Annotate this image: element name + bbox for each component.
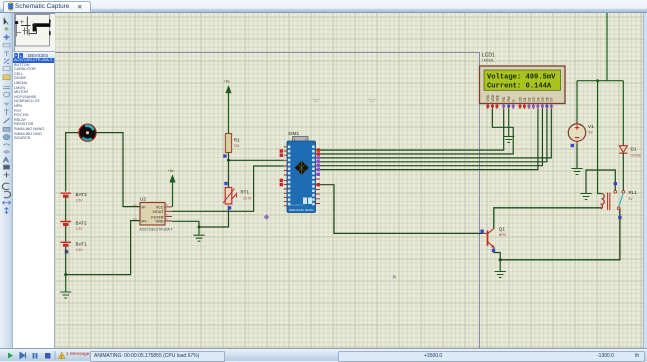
svg-text:Voltage: 499.5mV: Voltage: 499.5mV (487, 74, 556, 82)
wire BAT1 to ground junction (65, 247, 67, 275)
IC U2 ACS712 (140, 203, 172, 226)
wire Q1 collector to relay coil (494, 208, 602, 229)
wire SIM1 to LCD D4 (320, 109, 538, 170)
svg-text:D0: D0 (518, 97, 522, 101)
junction emitter node (499, 258, 502, 261)
diode D1 (619, 146, 642, 158)
pin state square BAT1 (65, 250, 68, 253)
svg-text:5V: 5V (589, 131, 594, 135)
svg-text:IP+: IP+ (142, 220, 148, 224)
pin state squares SIM1 right (317, 148, 320, 186)
junction top net (596, 79, 599, 82)
svg-text:NPN: NPN (499, 233, 507, 237)
svg-text:D3: D3 (532, 97, 536, 101)
window tab bar (0, 0, 647, 13)
junction battery bottom (64, 273, 67, 276)
power +5V (U2 VCC) (168, 169, 176, 207)
LCD pin names (486, 94, 554, 101)
relay RL1 (602, 190, 638, 210)
violet origin marker (264, 214, 270, 220)
battery BAT1 (60, 241, 87, 252)
svg-text:BAT1: BAT1 (76, 241, 88, 246)
wire U2 VIOUT to SIM1 A1 (172, 166, 284, 211)
svg-text:FILTER: FILTER (151, 215, 164, 219)
svg-text:LM016L: LM016L (482, 59, 494, 63)
wire SIM1 to LCD E and VDD (320, 109, 513, 154)
ground (battery) (60, 275, 71, 298)
wire V1 to ground (576, 144, 578, 168)
source V1 (568, 122, 594, 144)
LCD pin stubs (488, 104, 552, 110)
ground (relay common) (580, 194, 591, 200)
svg-text:GND: GND (156, 220, 164, 224)
ground (Q1 emitter) (495, 260, 506, 278)
svg-text:BAT2: BAT2 (76, 221, 88, 226)
wire SIM1 D2 to Q1 base (320, 185, 484, 234)
svg-text:RS: RS (502, 97, 506, 101)
svg-text:1.5V: 1.5V (76, 248, 84, 252)
ground (LCD RW) (503, 109, 514, 143)
wire top distribution net (577, 80, 623, 82)
faint annotation marks (312, 99, 320, 101)
pin state square R1 bottom (223, 154, 226, 157)
left mode toolbar (0, 13, 13, 348)
wire Q1 emitter to node (494, 247, 500, 259)
svg-text:RL1: RL1 (629, 190, 638, 195)
battery BAT3 (60, 192, 87, 203)
status bar (0, 348, 647, 361)
svg-text:ACS712ELCTR-20A-T: ACS712ELCTR-20A-T (140, 228, 173, 232)
ground (V1) (571, 169, 582, 175)
wire U2 GND net to RT1 (172, 206, 229, 227)
wire node A to RT1 (228, 160, 230, 187)
svg-text:www.arduino.cc: www.arduino.cc (290, 204, 306, 207)
pin state square V1 minus (571, 144, 574, 147)
wire BAT2 to BAT1 (65, 226, 67, 242)
pin state square Q1 emitter (492, 249, 495, 252)
wire SIM1 to LCD RS (320, 109, 504, 150)
pin state square relay common (614, 182, 617, 185)
svg-text:V1: V1 (588, 124, 594, 129)
svg-text:Q1: Q1 (499, 227, 506, 232)
wire emitter node to relay contact (500, 209, 620, 260)
svg-text:1,2: 1,2 (133, 203, 137, 207)
sheet border (55, 53, 480, 349)
pin state square RT1 bottom (228, 206, 231, 209)
arduino pin pads right (312, 146, 315, 206)
resistor R1 (225, 134, 240, 153)
battery BAT2 (60, 221, 87, 232)
wire SIM1 to LCD D7 (320, 109, 551, 158)
svg-text:1.5V: 1.5V (76, 227, 84, 231)
wire D1 to relay NO (622, 154, 624, 191)
svg-text:D4: D4 (536, 97, 540, 101)
vertical scrollbar (643, 13, 647, 348)
pin state squares SIM1 left (280, 149, 283, 186)
arduino pin stubs left (284, 147, 287, 206)
svg-text:VEE: VEE (495, 95, 499, 101)
arduino pin stubs right (316, 150, 321, 203)
power +5V (R1) (224, 80, 232, 134)
svg-text:DIODE: DIODE (631, 154, 642, 158)
wire BAT3 to BAT2 (65, 198, 67, 222)
wire relay coil branch (598, 81, 602, 194)
svg-text:+5v: +5v (224, 80, 230, 84)
wire SIM1 to LCD D5 (320, 109, 542, 166)
svg-text:RW: RW (507, 96, 511, 101)
wire D1 branch (622, 81, 624, 146)
pin state square relay contact bottom (618, 216, 621, 219)
svg-text:10.7k: 10.7k (243, 197, 252, 201)
wire battery to U2 IP+ (66, 221, 140, 275)
svg-text:10k: 10k (234, 144, 240, 148)
wire sensor right to U2 IP- (96, 133, 141, 207)
object selector panel (13, 13, 55, 348)
pin state square Q1 base (480, 230, 483, 233)
svg-text:D1: D1 (523, 97, 527, 101)
svg-text:VCC: VCC (156, 206, 164, 210)
svg-text:R1: R1 (234, 138, 240, 143)
wire V1 branch (576, 81, 578, 124)
svg-text:D7: D7 (550, 97, 554, 101)
arduino pin pads left (288, 146, 291, 206)
wire relay common to ground (586, 170, 615, 193)
junction GND net (198, 226, 201, 229)
current sensor (ACS712 loop) (79, 124, 96, 141)
svg-text:RT1: RT1 (241, 190, 250, 195)
wire R1 bottom to node A (228, 153, 230, 161)
no-connect marker (393, 275, 396, 278)
svg-text:SIMULINO NANO: SIMULINO NANO (289, 208, 314, 212)
thermistor RT1 (223, 188, 252, 205)
svg-text:D2: D2 (527, 97, 531, 101)
svg-text:D1: D1 (631, 147, 637, 152)
arduino SIM1 (287, 131, 316, 213)
transistor Q1 (484, 227, 507, 248)
svg-text:IP-: IP- (142, 206, 147, 210)
svg-text:D5: D5 (541, 97, 545, 101)
svg-text:BAT3: BAT3 (76, 192, 88, 197)
pin state square RT1 top (224, 182, 227, 185)
wire supply riser to top net (606, 13, 608, 81)
LCD display LCD1 (480, 66, 566, 104)
svg-text:D6: D6 (545, 97, 549, 101)
svg-text:Current: 0.144A: Current: 0.144A (487, 83, 552, 91)
junction node A (227, 159, 230, 162)
svg-text:3,4: 3,4 (133, 217, 137, 221)
svg-text:U2: U2 (140, 197, 146, 202)
svg-text:5V: 5V (629, 197, 634, 201)
svg-text:1.5V: 1.5V (76, 199, 84, 203)
LCD pin state squares (486, 105, 552, 108)
svg-text:E: E (512, 99, 516, 101)
svg-text:VSS: VSS (486, 95, 490, 101)
svg-text:VDD: VDD (491, 94, 495, 101)
svg-text:+5v: +5v (168, 169, 174, 173)
wire sensor left to battery chain (66, 133, 80, 192)
wire node A to SIM1 A0 (229, 159, 284, 161)
ground (U2 net) (193, 227, 204, 241)
svg-text:VIOUT: VIOUT (153, 210, 165, 214)
wire SIM1 to LCD D6 (320, 109, 547, 162)
pin numbers U2 (133, 203, 168, 221)
